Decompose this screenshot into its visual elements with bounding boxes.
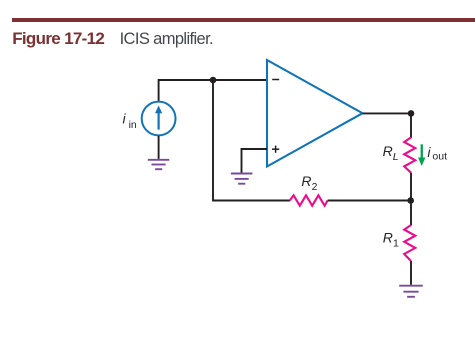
wire: feedback vertical from node A down to bottom rail [213,80,290,201]
svg-text:in: in [129,119,137,131]
ground (bottom, below R1) [399,286,423,297]
svg-text:out: out [432,151,447,163]
svg-text:i: i [427,144,431,160]
resistor RL [404,137,415,172]
figure caption: Figure 17-12 [12,30,104,47]
svg-text:R: R [301,173,311,189]
current source Iin circle [142,102,176,136]
current arrow i_out (green) [418,144,425,166]
wire: op-amp output to node B [363,112,412,114]
wire: R1 to bottom ground [410,261,412,285]
svg-text:1: 1 [393,238,399,250]
node B junction dot (output node) [408,110,415,117]
wire: current source bottom to ground [158,136,160,159]
ground (below current source) [148,160,170,169]
resistor R2 [290,195,328,205]
figure caption: ICIS amplifier. [120,31,213,48]
node A junction dot (input node) [210,77,217,84]
figure caption rule [12,18,475,21]
wire: R2 to node C [328,200,411,202]
wire: node C down to R1 [410,201,412,226]
wire: non-inverting input to its ground [242,149,268,173]
resistor R1 [404,225,415,261]
op-amp non-inverting pin label (plus) [272,146,279,153]
svg-text:2: 2 [312,181,318,193]
svg-text:L: L [393,151,399,163]
current source arrow (up) [155,106,162,130]
svg-text:R: R [383,230,393,246]
node C junction dot (feedback node) [407,197,414,204]
ground (non-inverting input) [231,174,253,184]
wire: current source top to inverting input [159,80,267,102]
wire: RL to node C [410,173,412,201]
wire: node B down to RL [410,113,412,137]
op-amp U1 triangle [267,60,363,167]
svg-text:R: R [383,143,393,159]
svg-text:i: i [123,111,127,127]
op-amp inverting pin label (minus) [272,79,279,81]
